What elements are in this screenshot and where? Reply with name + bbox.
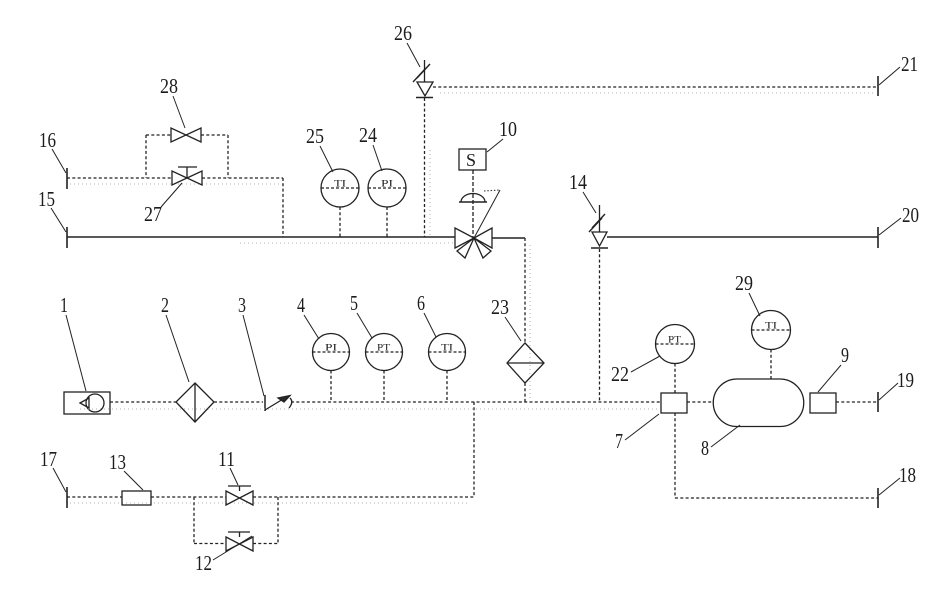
label 1: [60, 293, 86, 391]
check valve V14: [589, 205, 608, 248]
label 7: [615, 414, 659, 453]
label 23: [491, 295, 521, 341]
wire line15 echo: [240, 242, 455, 244]
filter F2: [176, 383, 214, 422]
svg-text:3: 3: [238, 293, 246, 317]
heater block 13: [122, 491, 151, 505]
node 20 tick: [877, 227, 879, 248]
wire line17 seg2: [151, 496, 226, 498]
gauge PT5: [366, 334, 403, 403]
node 18 tick: [877, 488, 879, 508]
svg-text:26: 26: [394, 21, 412, 45]
label 22: [611, 356, 660, 386]
label 9: [818, 343, 849, 392]
wire line21 echo: [440, 92, 876, 94]
svg-text:25: 25: [306, 124, 324, 148]
wire bypass12 bottom right: [253, 543, 278, 545]
svg-text:5: 5: [350, 291, 358, 315]
svg-text:16: 16: [39, 128, 56, 152]
wire V26 drop: [424, 98, 426, 237]
label 17: [40, 447, 66, 492]
wire bypass28 right riser: [227, 135, 229, 178]
node 15 tick: [66, 227, 68, 248]
label 15: [38, 187, 66, 232]
valve V11: [226, 486, 253, 505]
wire line17 seg3: [253, 496, 474, 498]
label 8: [701, 425, 740, 460]
svg-text:20: 20: [902, 203, 919, 227]
svg-text:6: 6: [417, 291, 425, 315]
label 28: [160, 74, 185, 128]
wire line16 echo: [70, 183, 283, 185]
wire filter23 drop: [524, 383, 526, 402]
label 24: [359, 123, 382, 171]
label 27: [144, 183, 182, 226]
svg-text:23: 23: [491, 295, 509, 319]
wire line21: [433, 86, 878, 88]
wire V14 drop: [599, 249, 601, 402]
svg-text:28: 28: [160, 74, 178, 98]
wire line17 seg1: [67, 496, 122, 498]
svg-text:9: 9: [841, 343, 849, 367]
label 18: [879, 463, 916, 495]
node 19 tick: [877, 392, 879, 412]
svg-text:24: 24: [359, 123, 377, 147]
wire valve outlet right: [492, 237, 525, 239]
svg-text:19: 19: [897, 368, 914, 392]
wire line16 left: [67, 177, 172, 179]
svg-text:29: 29: [735, 271, 753, 295]
label 3: [238, 293, 264, 396]
label 2: [161, 293, 189, 382]
gauge PT22: [656, 325, 695, 394]
svg-text:10: 10: [499, 117, 517, 141]
svg-text:PI: PI: [381, 180, 393, 190]
gauge TI29: [752, 311, 791, 380]
wire junction drop x474: [473, 402, 475, 497]
wire main line seg2: [214, 401, 263, 403]
svg-text:TI: TI: [765, 322, 777, 332]
svg-text:27: 27: [144, 202, 162, 226]
svg-text:11: 11: [218, 447, 235, 471]
wire bypass12 left riser: [193, 497, 195, 544]
label 20: [879, 203, 919, 235]
node 16 tick: [66, 168, 68, 189]
wire line15: [67, 236, 455, 238]
label 4: [297, 293, 319, 339]
actuator diaphragm dome: [459, 194, 487, 203]
gauge TI25: [321, 169, 359, 237]
orifice block 7: [661, 393, 687, 413]
wire main line echo: [80, 408, 660, 410]
gauge PI4: [313, 334, 350, 403]
wire dome dotted link: [484, 190, 500, 191]
restrictor block 9: [810, 393, 836, 413]
node 17 tick: [66, 487, 68, 508]
gauge PI24: [368, 169, 406, 237]
tank 8: [713, 379, 804, 427]
label 21: [879, 52, 918, 85]
check valve V26: [413, 60, 433, 98]
label 14: [569, 170, 596, 213]
wire bypass28 top left: [146, 134, 171, 136]
label 12: [195, 536, 252, 575]
svg-text:PT: PT: [668, 336, 681, 346]
wire drop to filter23 echo: [529, 245, 531, 400]
filter F23: [507, 343, 544, 383]
label 5: [350, 291, 372, 338]
wire bypass12 right riser: [277, 497, 279, 544]
label 29: [735, 271, 760, 316]
label 10: [487, 117, 517, 152]
label 6: [417, 291, 436, 337]
label 13: [109, 450, 143, 490]
wire line20: [607, 236, 878, 238]
svg-text:4: 4: [297, 293, 305, 317]
svg-text:18: 18: [899, 463, 916, 487]
wire line16 drop to line15: [282, 178, 284, 237]
wire line16 right: [202, 177, 283, 179]
wire actuator stem: [472, 170, 474, 238]
wire block7 drop: [674, 413, 676, 498]
valve V28: [171, 128, 201, 142]
valve V12: [226, 532, 253, 551]
svg-text:2: 2: [161, 293, 169, 317]
svg-text:7: 7: [615, 429, 623, 453]
wire valve stem diagonal: [474, 190, 500, 238]
wire seg 7 to tank: [687, 401, 714, 403]
wire line18: [675, 497, 878, 499]
wire bypass28 top right: [201, 134, 228, 136]
label 11: [218, 447, 238, 485]
node 21 tick: [877, 76, 879, 96]
svg-text:22: 22: [611, 362, 629, 386]
wire V26 drop echo: [429, 150, 431, 237]
solenoid S10: [459, 149, 486, 170]
svg-text:TI: TI: [441, 344, 453, 354]
svg-text:PI: PI: [325, 344, 337, 354]
valve V27: [172, 167, 202, 185]
svg-text:15: 15: [38, 187, 55, 211]
wire seg 9 to node19: [836, 401, 878, 403]
three-way valve U10: [455, 228, 492, 258]
svg-text:8: 8: [701, 436, 709, 460]
svg-text:13: 13: [109, 450, 126, 474]
wire main line seg3: [291, 401, 661, 403]
flow indicator P1: [64, 392, 110, 414]
label 16: [39, 128, 66, 173]
wire drop to filter23: [524, 238, 526, 343]
label 26: [394, 21, 420, 67]
svg-text:14: 14: [569, 170, 587, 194]
svg-text:S: S: [466, 150, 476, 170]
svg-text:1: 1: [60, 293, 68, 317]
wire bypass12 bottom left: [194, 543, 226, 545]
gauge TI6: [429, 334, 466, 403]
valve V3: [265, 395, 292, 411]
svg-text:12: 12: [195, 551, 212, 575]
svg-text:21: 21: [901, 52, 918, 76]
svg-text:PT: PT: [377, 344, 390, 354]
wire line17 echo: [70, 502, 470, 504]
wire bypass28 left riser: [145, 135, 147, 178]
label 25: [306, 124, 333, 172]
svg-text:17: 17: [40, 447, 57, 471]
svg-text:TI: TI: [334, 180, 346, 190]
label 19: [879, 368, 914, 400]
wire main line seg1: [110, 401, 176, 403]
